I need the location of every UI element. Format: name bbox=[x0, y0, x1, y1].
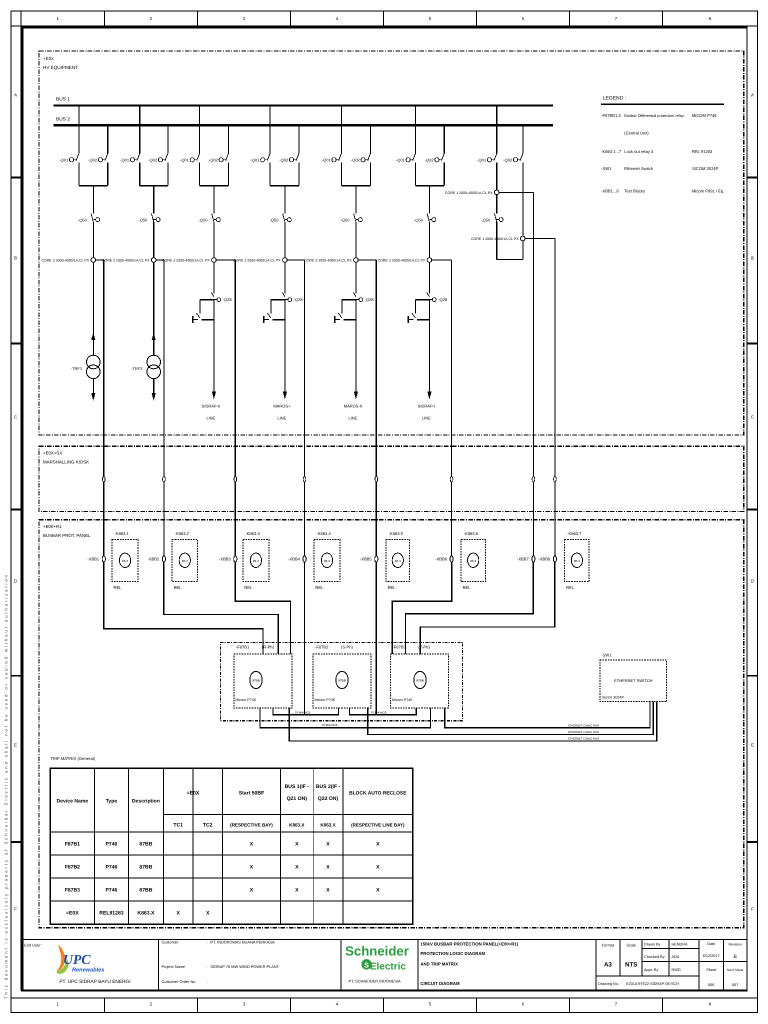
svg-text:-Q01: -Q01 bbox=[180, 157, 190, 162]
svg-text:LINE: LINE bbox=[348, 416, 357, 421]
wire XBB4 to panel jumper bbox=[304, 562, 306, 715]
svg-text:Ethernet Switch: Ethernet Switch bbox=[624, 166, 653, 171]
busbar BUS 2 bbox=[53, 124, 553, 126]
svg-text:PCM/A-MCB: PCM/A-MCB bbox=[295, 711, 311, 714]
kiosk terminal connector on wire 3 bbox=[234, 477, 237, 482]
svg-text:-Q50: -Q50 bbox=[138, 217, 148, 222]
svg-text:Project Name: Project Name bbox=[162, 964, 186, 969]
svg-text:Start 50BF: Start 50BF bbox=[239, 791, 264, 797]
bay 6 line arrow bbox=[427, 392, 431, 400]
bay 4 circuit breaker -Q50 bbox=[283, 214, 285, 222]
svg-text:BUSBAR PROT. PANEL: BUSBAR PROT. PANEL bbox=[43, 533, 91, 538]
svg-text:-K863.5: -K863.5 bbox=[389, 531, 404, 536]
svg-text:+E0X+SX: +E0X+SX bbox=[43, 451, 62, 456]
svg-text:-Q01: -Q01 bbox=[120, 157, 130, 162]
svg-text:P746: P746 bbox=[105, 887, 117, 893]
bay 1 transformer lower wire and arrow bbox=[92, 378, 94, 393]
svg-text:87BB: 87BB bbox=[139, 864, 152, 870]
svg-text:End User :: End User : bbox=[24, 942, 42, 947]
svg-text:86-3: 86-3 bbox=[324, 559, 330, 563]
test block -XBB1 bbox=[102, 556, 105, 562]
bay 4 feeder wire to line bbox=[284, 300, 286, 391]
svg-text:006: 006 bbox=[708, 983, 714, 987]
svg-text:REL: REL bbox=[114, 585, 123, 590]
svg-text:-Q50: -Q50 bbox=[341, 217, 351, 222]
bus coupler CT tap wire to XBB8 bbox=[525, 238, 555, 240]
bay 5 wire below CT bbox=[355, 262, 357, 293]
svg-text:Revision: Revision bbox=[728, 943, 741, 947]
svg-text:87BB: 87BB bbox=[338, 679, 346, 683]
svg-text:Type: Type bbox=[106, 799, 118, 805]
svg-text:+E0x: +E0x bbox=[43, 56, 54, 61]
wire XBB1 to F87B1 bbox=[104, 562, 263, 654]
svg-text:MAROS-II: MAROS-II bbox=[344, 404, 362, 409]
bay 5 disconnector -Q01 bbox=[340, 106, 342, 154]
svg-text:-XBB2: -XBB2 bbox=[147, 557, 160, 562]
kiosk terminal connector on wire 5 bbox=[375, 477, 378, 482]
svg-text:-Q50: -Q50 bbox=[199, 217, 209, 222]
svg-text:AND TRIP MATRIX: AND TRIP MATRIX bbox=[420, 961, 458, 966]
svg-text:B: B bbox=[14, 256, 17, 261]
svg-text:PT. SCHNEIDER INDONESIA: PT. SCHNEIDER INDONESIA bbox=[348, 979, 401, 984]
title block drawing title bbox=[418, 940, 519, 991]
wire XBB8 to F87B3 bbox=[420, 562, 555, 654]
svg-text:BUS 1: BUS 1 bbox=[56, 97, 70, 103]
bus coupler disconnector -Q02 bbox=[522, 125, 524, 153]
svg-text:PT. UPC SIDRAP BAYU ENERGI: PT. UPC SIDRAP BAYU ENERGI bbox=[59, 979, 130, 985]
svg-text:Next Sheet: Next Sheet bbox=[727, 968, 743, 972]
lockout relay -K863.5 bbox=[386, 531, 409, 590]
svg-text:-SW1: -SW1 bbox=[601, 652, 612, 657]
bay 3 circuit breaker -Q50 bbox=[212, 214, 214, 222]
svg-text:-K863.2: -K863.2 bbox=[175, 531, 190, 536]
svg-text:(Central Unit): (Central Unit) bbox=[624, 131, 649, 136]
svg-text:=E0X: =E0X bbox=[187, 791, 200, 797]
jumper wire F87B1 to F87B2 PCM/A-MCB bbox=[273, 708, 339, 715]
svg-text:E: E bbox=[751, 743, 754, 748]
svg-text:E: E bbox=[14, 743, 17, 748]
svg-text:ETHERNET CABLE RJ45: ETHERNET CABLE RJ45 bbox=[568, 731, 600, 734]
lockout relay -K863.3 bbox=[243, 531, 269, 590]
svg-text:-Q50: -Q50 bbox=[414, 217, 424, 222]
svg-text::: : bbox=[206, 979, 207, 984]
svg-text:-Q02: -Q02 bbox=[279, 157, 289, 162]
svg-text:-K863 1...7: -K863 1...7 bbox=[601, 149, 622, 154]
bus coupler CT tap wire to XBB7 bbox=[499, 191, 533, 193]
bay 1 circuit breaker -Q50 bbox=[91, 214, 93, 222]
svg-text:CORE 3 2000-4000/1A,CL PX: CORE 3 2000-4000/1A,CL PX bbox=[102, 259, 150, 263]
svg-text:CIRCUIT DIAGRAM: CIRCUIT DIAGRAM bbox=[420, 981, 460, 986]
svg-text:-Q50: -Q50 bbox=[78, 217, 88, 222]
bay 2 transformer feeder arrow up bbox=[152, 333, 156, 340]
svg-text:X: X bbox=[376, 841, 380, 847]
ethernet cable F87B3 to SW1 bbox=[445, 702, 650, 728]
svg-text:ETHERNET CABLE RJ45: ETHERNET CABLE RJ45 bbox=[568, 738, 600, 741]
svg-text::: : bbox=[206, 964, 207, 969]
svg-text:-XBB5: -XBB5 bbox=[360, 557, 373, 562]
svg-text:PROTECTION LOGIC DIAGRAM: PROTECTION LOGIC DIAGRAM bbox=[420, 951, 485, 956]
svg-text:-XBB7: -XBB7 bbox=[517, 557, 530, 562]
bay 6 disconnector -Q02 bbox=[443, 125, 445, 153]
svg-text:86-3: 86-3 bbox=[574, 559, 580, 563]
svg-text:-K863.3: -K863.3 bbox=[245, 531, 260, 536]
svg-text:F: F bbox=[751, 907, 754, 912]
svg-text:Micom P746: Micom P746 bbox=[315, 698, 336, 702]
test block -XBB7 bbox=[532, 556, 535, 562]
svg-text:150kV BUSBAR PROTECTION PANEL(: 150kV BUSBAR PROTECTION PANEL(+E00+R1) bbox=[420, 941, 518, 946]
bay 4 disconnector -Q02 bbox=[298, 125, 300, 153]
svg-text:P746: P746 bbox=[105, 864, 117, 870]
bus coupler wire to breaker bbox=[496, 195, 498, 214]
svg-text:E2010-97622-SIDRAP-06-SCH: E2010-97622-SIDRAP-06-SCH bbox=[626, 982, 679, 986]
svg-text:-Q28: -Q28 bbox=[438, 297, 448, 302]
title block bbox=[22, 940, 747, 991]
svg-text:ADA: ADA bbox=[672, 955, 680, 959]
svg-text:UPC: UPC bbox=[63, 952, 91, 967]
svg-text:Q22 ON): Q22 ON) bbox=[318, 796, 339, 802]
bay 6 joining wire bbox=[415, 185, 444, 187]
ethernet cable F87B1 to SW1 bbox=[289, 702, 656, 741]
bay 5 feeder wire to line bbox=[355, 300, 357, 391]
svg-text:-F87B1: -F87B1 bbox=[236, 644, 250, 649]
svg-text:X: X bbox=[326, 841, 330, 847]
wire XBB6 to F87B3 bbox=[392, 562, 451, 654]
svg-text:Drawing No. :: Drawing No. : bbox=[598, 982, 621, 986]
svg-text:MARSHALLING KIOSK: MARSHALLING KIOSK bbox=[43, 460, 89, 465]
bay 4 line disconnector -Q28 with earth switch bbox=[282, 292, 285, 297]
bay 1 transformer feeder arrow up bbox=[91, 333, 95, 340]
bay 1 current transformer CORE 3 bbox=[91, 258, 96, 263]
svg-text:86-3: 86-3 bbox=[470, 559, 476, 563]
wire XBB7 to F87B3 bbox=[406, 562, 534, 654]
svg-text:Electric: Electric bbox=[370, 962, 407, 973]
kiosk terminal connector on wire 6 bbox=[450, 477, 453, 482]
svg-text:-Q01: -Q01 bbox=[477, 157, 487, 162]
top reference band bbox=[11, 25, 758, 27]
svg-text:F87B1: F87B1 bbox=[65, 841, 80, 847]
svg-text:MAROS-I: MAROS-I bbox=[273, 404, 290, 409]
central unit panel enclosure bbox=[221, 642, 463, 720]
svg-text:BUS 1(IF -: BUS 1(IF - bbox=[285, 784, 310, 790]
svg-text:X: X bbox=[376, 887, 380, 893]
wire XBB5 to panel jumper bbox=[375, 562, 377, 715]
svg-text:Schneider: Schneider bbox=[345, 944, 409, 959]
test block -XBB4 bbox=[303, 556, 306, 562]
svg-text:BLOCK AUTO RECLOSE: BLOCK AUTO RECLOSE bbox=[349, 791, 407, 797]
bay 3 feeder wire to line bbox=[213, 300, 215, 391]
svg-text:(T-Ph): (T-Ph) bbox=[418, 644, 430, 649]
bay 2 transformer -TRF2 bbox=[147, 355, 161, 369]
svg-text:X: X bbox=[206, 910, 210, 916]
svg-text:LEGEND :: LEGEND : bbox=[603, 95, 626, 101]
bay 4 line arrow bbox=[283, 392, 287, 400]
title block approval fields bbox=[596, 940, 747, 991]
svg-text:-Q02: -Q02 bbox=[425, 157, 435, 162]
svg-text:Date: Date bbox=[707, 942, 715, 946]
svg-text:-TRF2: -TRF2 bbox=[131, 366, 143, 371]
svg-text:-F87B2: -F87B2 bbox=[315, 644, 329, 649]
svg-text:K863.X: K863.X bbox=[320, 823, 336, 828]
svg-text:TC2: TC2 bbox=[203, 823, 213, 829]
bay 2 transformer lower wire and arrow bbox=[153, 378, 155, 393]
svg-text:NWD: NWD bbox=[672, 968, 681, 972]
svg-text:X: X bbox=[295, 841, 299, 847]
svg-text:86-3: 86-3 bbox=[182, 559, 188, 563]
svg-text:BUS 2: BUS 2 bbox=[56, 117, 70, 123]
svg-text:X: X bbox=[376, 864, 380, 870]
bay 4 wire below CT bbox=[284, 262, 286, 293]
bay 1 wire below CT bbox=[92, 262, 94, 356]
lockout relay -K863.4 bbox=[314, 531, 340, 590]
svg-text:PCM/A-MCB: PCM/A-MCB bbox=[322, 724, 338, 727]
svg-text:-XBB6: -XBB6 bbox=[435, 557, 448, 562]
bay 1 transformer -TRF1 bbox=[87, 355, 101, 369]
bus coupler CT CORE 1 on Q01 branch bbox=[496, 162, 498, 190]
svg-text:Micom P991 / Eq.: Micom P991 / Eq. bbox=[692, 189, 724, 194]
svg-text:ETHERNET SWITCH: ETHERNET SWITCH bbox=[614, 678, 652, 683]
svg-text:CORE 3 2000-4000/1A,CL PX: CORE 3 2000-4000/1A,CL PX bbox=[162, 259, 210, 263]
test block -XBB6 bbox=[450, 556, 453, 562]
svg-text:BUS 2(IF -: BUS 2(IF - bbox=[316, 784, 341, 790]
svg-text::: : bbox=[206, 940, 207, 945]
svg-text:-Q01: -Q01 bbox=[396, 157, 406, 162]
bay 4 joining wire bbox=[270, 185, 299, 187]
bus coupler disconnector -Q01 bbox=[496, 106, 498, 154]
svg-text:A: A bbox=[14, 93, 17, 98]
svg-text:LINE: LINE bbox=[206, 416, 215, 421]
svg-text:PCM/A-MCB: PCM/A-MCB bbox=[371, 711, 387, 714]
svg-text:A: A bbox=[751, 93, 754, 98]
UPC Renewables logo bbox=[56, 945, 104, 975]
svg-text:-XBB1: -XBB1 bbox=[87, 557, 100, 562]
svg-text:X: X bbox=[250, 864, 254, 870]
svg-text:CORE 3 2000-4000/1A,CL PX: CORE 3 2000-4000/1A,CL PX bbox=[233, 259, 281, 263]
lockout relay -K863.7 bbox=[565, 531, 590, 590]
bay 2 current transformer CORE 3 bbox=[151, 258, 156, 263]
busbar differential relay -F87B1 Micom P746 bbox=[234, 644, 292, 708]
bay 6 line disconnector -Q28 with earth switch bbox=[427, 292, 430, 297]
svg-text:Appr. By: Appr. By bbox=[644, 968, 658, 972]
bus coupler CT CORE 1 on Q02 branch bbox=[522, 162, 524, 236]
svg-text:X: X bbox=[250, 887, 254, 893]
svg-text:REL 91283: REL 91283 bbox=[692, 149, 713, 154]
test block -XBB2 bbox=[162, 556, 165, 562]
svg-text:K863.X: K863.X bbox=[137, 910, 155, 916]
svg-text:HENDRA: HENDRA bbox=[672, 943, 689, 947]
svg-text:P746: P746 bbox=[105, 841, 117, 847]
bay 5 joining wire bbox=[341, 185, 370, 187]
svg-text:-Q28: -Q28 bbox=[365, 297, 375, 302]
svg-text:CORE 3 2000-4000/1A,CL PX: CORE 3 2000-4000/1A,CL PX bbox=[378, 259, 426, 263]
svg-text:87BB: 87BB bbox=[139, 841, 152, 847]
bottom reference band bbox=[11, 997, 758, 999]
bay 1 joining wire bbox=[79, 185, 108, 187]
svg-text:X: X bbox=[295, 864, 299, 870]
HV EQUIPMENT enclosure box +E0x bbox=[39, 51, 744, 435]
bay 2 wire below CT bbox=[153, 262, 155, 356]
svg-text:Lock out relay 3: Lock out relay 3 bbox=[624, 149, 654, 154]
svg-text:Drawn By: Drawn By bbox=[644, 943, 661, 947]
kiosk terminal connector on wire 4 bbox=[303, 477, 306, 482]
svg-text:X: X bbox=[176, 910, 180, 916]
bay 4 disconnector -Q01 bbox=[269, 106, 271, 154]
svg-text:-Q50: -Q50 bbox=[481, 217, 491, 222]
test block -XBB5 bbox=[375, 556, 378, 562]
svg-text:Checked By: Checked By bbox=[644, 955, 665, 959]
svg-text:S: S bbox=[364, 960, 369, 969]
bay 1 disconnector -Q01 bbox=[78, 106, 80, 154]
busbar BUS 1 bbox=[53, 104, 553, 106]
bay 3 disconnector -Q02 bbox=[227, 125, 229, 153]
bay 2 disconnector -Q02 bbox=[167, 125, 169, 153]
svg-text:-XBB8: -XBB8 bbox=[538, 557, 551, 562]
svg-text:-Q50: -Q50 bbox=[270, 217, 280, 222]
ethernet switch -SW1 Sicom 3024P bbox=[600, 652, 667, 701]
svg-text:D: D bbox=[14, 579, 17, 584]
svg-text:Busbar Differential protection: Busbar Differential protection relay bbox=[624, 113, 684, 118]
svg-text:-SW1: -SW1 bbox=[601, 166, 612, 171]
svg-text:K863.X: K863.X bbox=[289, 823, 305, 828]
jumper wire F87B2 to F87B3 PCM/A-MCB bbox=[349, 708, 416, 715]
lockout relay -K863.1 bbox=[112, 531, 138, 590]
svg-text:SIDRAP-II: SIDRAP-II bbox=[202, 404, 220, 409]
svg-text:-K863.6: -K863.6 bbox=[464, 531, 479, 536]
svg-text:SICOM 3024P: SICOM 3024P bbox=[692, 166, 719, 171]
svg-text:Sicom 3024P: Sicom 3024P bbox=[602, 696, 624, 700]
svg-text:D: D bbox=[751, 579, 754, 584]
svg-text:-Q02: -Q02 bbox=[88, 157, 98, 162]
bay 3 current transformer CORE 3 bbox=[212, 258, 217, 263]
svg-text:X: X bbox=[326, 864, 330, 870]
svg-text:REL: REL bbox=[244, 585, 253, 590]
bay 5 CT secondary tap wire bbox=[358, 259, 376, 261]
svg-text:Scale: Scale bbox=[626, 943, 636, 948]
svg-text:-K863.7: -K863.7 bbox=[567, 531, 582, 536]
frame inner thick border bbox=[21, 26, 748, 29]
svg-text:86-3: 86-3 bbox=[395, 559, 401, 563]
svg-text:-F87B3: -F87B3 bbox=[392, 644, 406, 649]
bay 5 disconnector -Q02 bbox=[369, 125, 371, 153]
svg-text:REL: REL bbox=[463, 585, 472, 590]
svg-text:86-3: 86-3 bbox=[122, 559, 128, 563]
svg-text:007: 007 bbox=[732, 983, 738, 987]
svg-text:TC1: TC1 bbox=[173, 823, 183, 829]
bus coupler joining wire bbox=[522, 241, 524, 259]
svg-text:SIDRAP 70 MW WIND POWER PLANT: SIDRAP 70 MW WIND POWER PLANT bbox=[210, 964, 279, 969]
title block customer fields bbox=[158, 940, 279, 991]
bay 1 disconnector -Q02 bbox=[107, 125, 109, 153]
side ownership note bbox=[3, 574, 8, 999]
svg-text:TRIP MATRIX (General): TRIP MATRIX (General) bbox=[50, 756, 96, 761]
BUSBAR PROT. PANEL enclosure +E00+R1 bbox=[39, 520, 744, 928]
svg-text:-TRF1: -TRF1 bbox=[71, 366, 83, 371]
svg-text:=E0X: =E0X bbox=[66, 910, 79, 916]
svg-text:LINE: LINE bbox=[422, 416, 431, 421]
svg-text:X: X bbox=[250, 841, 254, 847]
bay 3 joining wire bbox=[200, 185, 229, 187]
svg-text:-Q01: -Q01 bbox=[59, 157, 69, 162]
svg-text:86-3: 86-3 bbox=[253, 559, 259, 563]
bay 2 CT secondary tap wire bbox=[156, 259, 164, 261]
svg-text:X: X bbox=[326, 887, 330, 893]
bay 6 CT secondary tap wire bbox=[432, 259, 452, 261]
busbar differential relay -F87B2 Micom P746 bbox=[313, 644, 371, 708]
svg-text:HV EQUIPMENT: HV EQUIPMENT bbox=[43, 65, 78, 70]
svg-text:-Q28: -Q28 bbox=[294, 297, 304, 302]
svg-text:Sheet: Sheet bbox=[706, 968, 717, 972]
bay 3 wire below CT bbox=[213, 262, 215, 293]
bay 3 line disconnector -Q28 with earth switch bbox=[211, 292, 214, 297]
svg-text:87BB: 87BB bbox=[252, 679, 260, 683]
bay 5 line arrow bbox=[354, 392, 358, 400]
wire XBB2 to F87B1 bbox=[164, 562, 278, 654]
svg-text:-Q02: -Q02 bbox=[209, 157, 219, 162]
bay 6 disconnector -Q01 bbox=[414, 106, 416, 154]
svg-text:SIDRAP-I: SIDRAP-I bbox=[418, 404, 435, 409]
svg-text:C: C bbox=[14, 415, 17, 420]
lockout relay -K863.6 bbox=[461, 531, 485, 590]
svg-text:87BB: 87BB bbox=[416, 679, 424, 683]
lockout relay -K863.2 bbox=[172, 531, 197, 590]
svg-text:C: C bbox=[751, 415, 754, 420]
bay 5 circuit breaker -Q50 bbox=[354, 214, 356, 222]
bay 3 disconnector -Q01 bbox=[199, 106, 201, 154]
wire XBB3 to F87B1 bbox=[235, 562, 290, 654]
svg-text:-F87BB1.3: -F87BB1.3 bbox=[601, 113, 621, 118]
bay 5 current transformer CORE 3 bbox=[354, 258, 359, 263]
left reference band bbox=[20, 11, 22, 990]
svg-text:-K863.4: -K863.4 bbox=[316, 531, 331, 536]
busbar differential relay -F87B3 Micom P746 bbox=[390, 644, 448, 708]
trip matrix table bbox=[50, 756, 413, 924]
svg-text:A3: A3 bbox=[604, 962, 612, 969]
svg-text:CORE 1 2000-4000/1A,CL PX: CORE 1 2000-4000/1A,CL PX bbox=[471, 237, 519, 241]
bay 4 current transformer CORE 3 bbox=[283, 258, 288, 263]
bay 4 CT secondary tap wire bbox=[287, 259, 304, 261]
bus coupler circuit breaker -Q50 bbox=[495, 214, 497, 222]
svg-text:6/12/2017: 6/12/2017 bbox=[703, 954, 720, 958]
svg-text:-K863.1: -K863.1 bbox=[115, 531, 130, 536]
svg-text:-Q01: -Q01 bbox=[322, 157, 332, 162]
svg-text:Renewables: Renewables bbox=[72, 967, 104, 974]
test block -XBB3 bbox=[234, 556, 237, 562]
bay 6 feeder wire to line bbox=[428, 300, 430, 391]
svg-text:MiCOM P746: MiCOM P746 bbox=[692, 113, 717, 118]
svg-text:REL: REL bbox=[388, 585, 397, 590]
svg-text:F87B2: F87B2 bbox=[65, 864, 80, 870]
svg-text:B: B bbox=[751, 256, 754, 261]
bay 2 circuit breaker -Q50 bbox=[152, 214, 154, 222]
jumper wire F87B1 to F87B3 PCM/A-MCB bbox=[260, 708, 430, 728]
bay 6 circuit breaker -Q50 bbox=[427, 214, 429, 222]
kiosk terminal connector on wire 1 bbox=[103, 477, 106, 482]
svg-text:PT. INDOKOMAS BUANA PERKASA: PT. INDOKOMAS BUANA PERKASA bbox=[210, 940, 275, 945]
svg-text:-Q02: -Q02 bbox=[148, 157, 158, 162]
svg-text:REL: REL bbox=[174, 585, 183, 590]
svg-text:Description: Description bbox=[132, 799, 160, 805]
bay 6 current transformer CORE 3 bbox=[427, 258, 432, 263]
svg-text:-XBB4: -XBB4 bbox=[288, 557, 301, 562]
svg-text:-XBB1...8: -XBB1...8 bbox=[601, 189, 619, 194]
svg-text:-Q01: -Q01 bbox=[250, 157, 260, 162]
svg-text:REL: REL bbox=[315, 585, 324, 590]
svg-text:NTS: NTS bbox=[625, 962, 637, 969]
bay 1 CT secondary tap wire bbox=[96, 259, 104, 261]
ethernet cable F87B2 to SW1 bbox=[368, 702, 654, 735]
bay 6 wire below CT bbox=[428, 262, 430, 293]
svg-text:REL: REL bbox=[566, 585, 575, 590]
svg-text:+E00+R1: +E00+R1 bbox=[43, 524, 62, 529]
